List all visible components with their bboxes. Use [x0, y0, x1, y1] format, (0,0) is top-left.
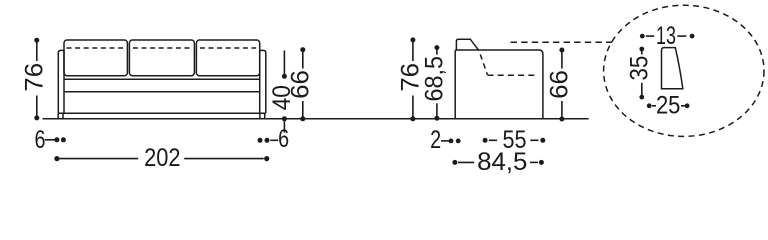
front view: seat top line: [64, 78, 260, 80]
dim 6 left: leader: [45, 139, 55, 141]
dim 76 front: line: [36, 40, 38, 61]
dot 35 bottom: [639, 95, 644, 100]
svg-text:6: 6: [35, 127, 46, 154]
svg-text:66: 66: [547, 70, 574, 99]
svg-text:2: 2: [430, 127, 441, 154]
dot 202 left: [54, 156, 59, 161]
svg-text:76: 76: [398, 63, 425, 92]
dot 76 side bottom: [410, 116, 415, 121]
dot 40 front bottom: [282, 116, 287, 121]
dots 6 left: [54, 137, 59, 142]
svg-text:202: 202: [144, 145, 180, 172]
ground baseline: [43, 118, 589, 120]
dot 202 right: [264, 156, 269, 161]
dim 40 front: line: [283, 51, 285, 77]
dim 25: lines: [652, 105, 656, 107]
dot 66 front top: [300, 47, 305, 52]
front view: cushion 1 dashed top: [67, 47, 125, 49]
dot 76 front top: [34, 38, 39, 43]
dot 66 front bottom: [300, 116, 305, 121]
front view: cushion 1: [64, 40, 127, 76]
front view: left leg: [57, 113, 59, 119]
dot 84,5 left: [452, 160, 457, 165]
svg-text:84,5: 84,5: [477, 149, 527, 176]
dot 66 side bottom: [559, 117, 564, 122]
front view: cushion 2 dashed top: [133, 47, 191, 49]
dim 55: lines: [489, 139, 497, 141]
dot 55 right: [540, 138, 545, 143]
dots 6 right: [258, 138, 263, 143]
dim 202: lines: [59, 158, 138, 160]
dot 40 front top: [282, 74, 287, 79]
front view: sofa bottom line: [58, 112, 265, 114]
leader dashed line to detail circle: [511, 41, 612, 43]
svg-text:13: 13: [656, 23, 676, 50]
front view: cushion 2: [129, 40, 194, 76]
front view: cushion 3 dashed top: [200, 47, 256, 49]
side view: body outline: [455, 50, 543, 119]
front view: left arm inner edge: [63, 50, 65, 113]
dot 76 front bottom: [34, 115, 39, 120]
dots 2: [449, 139, 454, 144]
dot 35 top: [639, 47, 644, 52]
detail: back cushion wedge: [662, 48, 683, 89]
svg-text:66: 66: [288, 70, 315, 99]
front view: seat bottom line: [64, 91, 260, 93]
front view: right leg: [259, 113, 261, 119]
dot 13 left: [640, 34, 645, 39]
dim 35: lines: [641, 49, 643, 55]
dim 2: leader: [441, 140, 449, 142]
dot 25 left: [647, 103, 652, 108]
side view: backrest hidden slant (dashed): [479, 51, 488, 75]
dim 84,5: lines: [458, 161, 474, 163]
dot 25 right: [685, 103, 690, 108]
dot 76 side top: [410, 37, 415, 42]
side view: backrest bump: [456, 39, 479, 50]
side view: seat hidden line (dashed): [488, 74, 539, 76]
svg-text:6: 6: [278, 126, 289, 153]
detail circle (dashed ellipse): [604, 5, 764, 136]
svg-text:25: 25: [656, 92, 681, 119]
dot 68,5 bottom: [434, 116, 439, 121]
dot 68,5 top: [434, 45, 439, 50]
front view: cushion 3: [196, 40, 259, 76]
dot 55 left: [483, 138, 488, 143]
dim 13: lines: [646, 35, 654, 37]
dot 84,5 right: [539, 160, 544, 165]
dot 66 side top: [559, 48, 564, 53]
svg-text:68,5: 68,5: [422, 56, 449, 102]
svg-text:35: 35: [627, 56, 654, 81]
dim 76 side: line: [412, 40, 414, 61]
dim 6 right: leaders: [283, 119, 285, 133]
front view: right arm: [260, 50, 266, 113]
front view: left arm: [58, 50, 64, 113]
dot 13 right: [690, 34, 695, 39]
dim 68,5 side: line: [436, 48, 438, 55]
svg-text:76: 76: [22, 63, 49, 92]
dim 66 side: line: [561, 50, 563, 69]
front view: right arm inner edge: [259, 50, 261, 113]
dim 66 front: line: [302, 50, 304, 69]
